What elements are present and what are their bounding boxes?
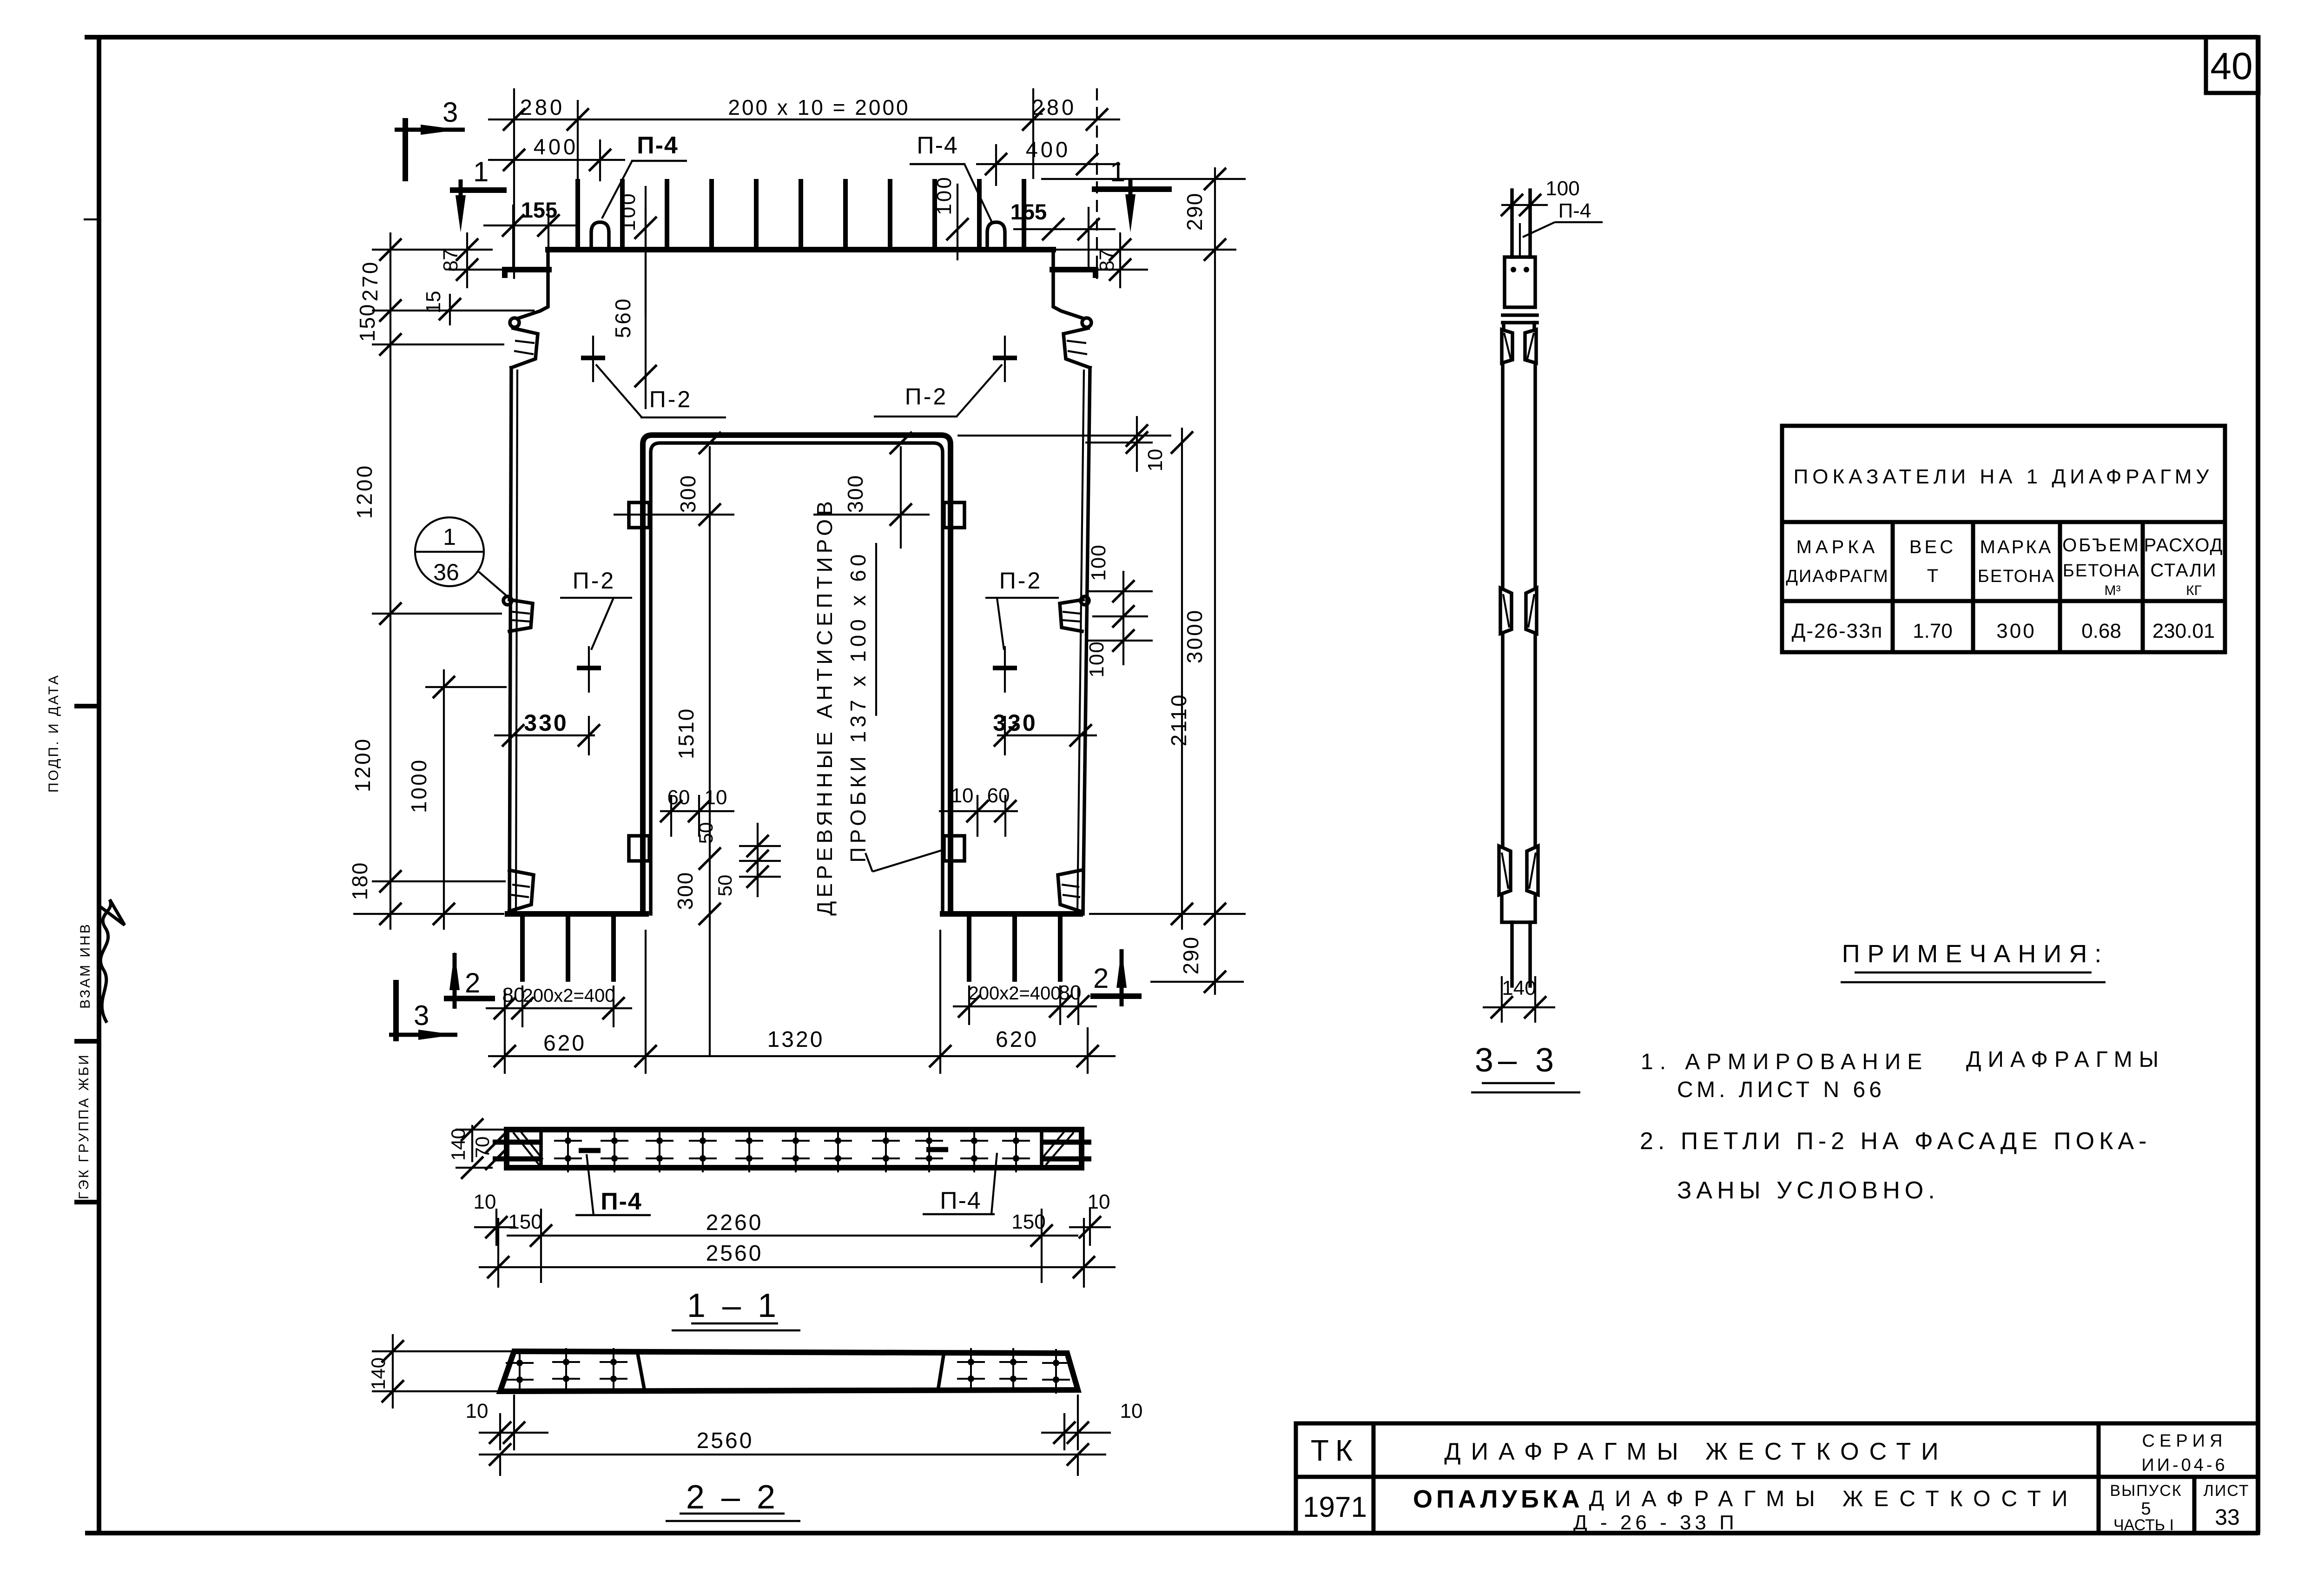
svg-text:10: 10 [705, 786, 727, 809]
signature squiggle on left margin [100, 899, 125, 1023]
loop P-2 upper right (tick) [1004, 336, 1006, 382]
svg-text:1: 1 [473, 156, 489, 187]
svg-text:П-4: П-4 [940, 1187, 982, 1214]
detail circle 1/36 [415, 517, 484, 586]
svg-text:15: 15 [422, 291, 445, 314]
svg-text:2560: 2560 [706, 1241, 763, 1266]
svg-text:560: 560 [611, 297, 635, 338]
svg-text:0.68: 0.68 [2081, 620, 2121, 642]
svg-text:200х2=400: 200х2=400 [522, 985, 615, 1006]
svg-text:ЧАСТЬ I: ЧАСТЬ I [2113, 1516, 2174, 1534]
svg-text:180: 180 [348, 862, 372, 900]
svg-text:10: 10 [1144, 449, 1167, 472]
right chain 2110 [1181, 428, 1183, 930]
top cap block [1505, 257, 1535, 307]
left bottom key [509, 870, 534, 911]
loop section dash right [926, 1147, 948, 1152]
middle keys [1500, 588, 1512, 634]
title block [1296, 1423, 2258, 1534]
svg-text:П-4: П-4 [917, 132, 958, 159]
svg-text:3000: 3000 [1182, 608, 1207, 663]
svg-text:400: 400 [534, 134, 578, 159]
svg-text:П-2: П-2 [905, 384, 948, 410]
loop section dash left [579, 1148, 601, 1153]
bottom rebar spikes right leg [969, 914, 1060, 982]
dim 400 right [976, 163, 1120, 165]
svg-text:140: 140 [447, 1128, 469, 1161]
left top ledge [505, 270, 549, 275]
svg-text:400: 400 [1026, 137, 1070, 162]
loop P-2 upper left (tick) [592, 336, 594, 382]
svg-text:П-4: П-4 [637, 132, 679, 159]
indicators table [1782, 426, 2225, 652]
inner slant right [938, 1352, 944, 1390]
svg-text:П-2: П-2 [999, 568, 1042, 594]
svg-text:1510: 1510 [674, 708, 698, 759]
dim 2560 bottom [479, 1454, 1106, 1455]
svg-text:50: 50 [714, 875, 736, 897]
dim 400 left [488, 159, 625, 161]
svg-text:1200: 1200 [352, 464, 376, 519]
svg-text:3: 3 [414, 1000, 429, 1031]
svg-text:10: 10 [474, 1190, 496, 1213]
svg-text:П-4: П-4 [1558, 199, 1591, 222]
svg-text:ЛИСТ: ЛИСТ [2204, 1482, 2250, 1500]
left middle key [503, 596, 512, 605]
svg-text:100: 100 [1085, 641, 1108, 677]
wooden plug bottom right [944, 836, 964, 861]
svg-text:ДИАФРАГМЫ ЖЕСТКОСТИ: ДИАФРАГМЫ ЖЕСТКОСТИ [1589, 1487, 2079, 1511]
bottom chain 620/1320/620 [488, 1055, 1116, 1057]
svg-text:280: 280 [1032, 95, 1076, 119]
svg-text:300: 300 [676, 475, 700, 513]
bottom cap [1502, 895, 1535, 922]
svg-text:155: 155 [521, 198, 557, 222]
svg-text:ВЫПУСК: ВЫПУСК [2110, 1482, 2182, 1500]
nail cross marks row [554, 1127, 1030, 1172]
left margin stamp text (rotated) [46, 674, 93, 1199]
svg-text:3: 3 [442, 97, 458, 128]
svg-text:5: 5 [2141, 1499, 2151, 1519]
svg-text:330: 330 [993, 710, 1037, 736]
svg-text:200 х 10 = 2000: 200 х 10 = 2000 [728, 95, 910, 119]
svg-text:2110: 2110 [1167, 693, 1191, 747]
svg-text:100: 100 [933, 175, 956, 215]
svg-text:П-4: П-4 [601, 1188, 642, 1215]
section mark 1 (top right) [1092, 186, 1172, 192]
svg-text:2 – 2: 2 – 2 [686, 1479, 779, 1516]
dim 100 rotated right (spike offset) [957, 184, 958, 260]
svg-text:П-2: П-2 [573, 568, 615, 594]
svg-text:ДЕРЕВЯННЫЕ АНТИСЕПТИРОВ: ДЕРЕВЯННЫЕ АНТИСЕПТИРОВ [812, 497, 837, 916]
svg-text:ПРИМЕЧАНИЯ:: ПРИМЕЧАНИЯ: [1842, 940, 2109, 968]
svg-text:100: 100 [1087, 544, 1110, 581]
svg-text:Д - 26 - 33 П: Д - 26 - 33 П [1573, 1511, 1738, 1534]
wooden plug top right [944, 503, 964, 528]
dim 2560 [479, 1266, 1116, 1268]
svg-text:БЕТОНА: БЕТОНА [2063, 561, 2140, 581]
svg-text:33: 33 [2215, 1505, 2239, 1530]
svg-text:ТК: ТК [1311, 1434, 1359, 1467]
svg-text:620: 620 [543, 1031, 586, 1056]
svg-text:200х2=400: 200х2=400 [968, 983, 1061, 1004]
svg-text:1320: 1320 [767, 1027, 825, 1052]
svg-text:1: 1 [443, 524, 456, 550]
svg-text:36: 36 [433, 559, 459, 585]
outer outline [507, 1130, 1082, 1168]
dims 50/50 near lower left plug [746, 835, 769, 857]
svg-text:ДИАФРАГМ: ДИАФРАГМ [1786, 567, 1889, 586]
svg-text:ПОДП. И ДАТА: ПОДП. И ДАТА [46, 674, 61, 793]
svg-text:10: 10 [1120, 1400, 1143, 1422]
svg-text:2. ПЕТЛИ П-2 НА ФАСАДЕ ПОКА-: 2. ПЕТЛИ П-2 НА ФАСАДЕ ПОКА- [1640, 1128, 2151, 1155]
panel left edge lower (double line) [509, 368, 511, 914]
svg-text:РАСХОД: РАСХОД [2144, 535, 2223, 555]
svg-text:10: 10 [951, 784, 974, 807]
loop P-2 lower right (tick) [1004, 646, 1006, 693]
svg-text:150: 150 [1011, 1210, 1045, 1233]
outline trapezoid [500, 1351, 1078, 1391]
svg-text:1 – 1: 1 – 1 [687, 1287, 780, 1324]
svg-text:10: 10 [466, 1400, 489, 1422]
right edge key bump top [1082, 318, 1091, 327]
nail marks left block [506, 1349, 534, 1377]
svg-text:2560: 2560 [697, 1428, 754, 1453]
svg-text:140: 140 [367, 1357, 389, 1390]
svg-text:П-2: П-2 [649, 386, 692, 412]
svg-text:280: 280 [520, 95, 565, 119]
panel left edge upper [519, 250, 548, 318]
page number box "40" [2206, 37, 2258, 93]
left prongs [493, 1140, 541, 1145]
lifting loop P-4 left (elevation) [591, 222, 609, 250]
column body [1502, 323, 1505, 330]
dim 100 rotated left (spike offset) [645, 186, 647, 316]
section mark 3 (bottom left) [393, 980, 399, 1041]
svg-text:270: 270 [358, 260, 382, 302]
inner chain 87 / 15 [466, 232, 468, 288]
extension lines to panel [372, 249, 493, 251]
inner chain 1000 [443, 669, 445, 930]
svg-text:1200: 1200 [350, 737, 375, 792]
svg-text:СТАЛИ: СТАЛИ [2150, 560, 2217, 581]
svg-text:ВЕС: ВЕС [1909, 537, 1956, 557]
svg-text:ПОКАЗАТЕЛИ НА 1 ДИАФРАГМУ: ПОКАЗАТЕЛИ НА 1 ДИАФРАГМУ [1794, 465, 2213, 488]
bottom rebar spikes left leg [522, 914, 614, 982]
svg-text:СЕРИЯ: СЕРИЯ [2142, 1431, 2227, 1451]
panel top edge [548, 247, 1053, 252]
svg-text:1.70: 1.70 [1913, 620, 1953, 642]
svg-text:290: 290 [1179, 936, 1203, 975]
wooden plug bottom left [629, 836, 649, 861]
section mark 2 (bottom right) [1090, 993, 1142, 999]
dim 560 (inside panel, from top) [645, 207, 647, 409]
doorway centerline dims left: 300 / 1510 / 300 [709, 446, 711, 1055]
svg-text:КГ: КГ [2186, 583, 2202, 598]
svg-text:ДИАФРАГМЫ ЖЕСТКОСТИ: ДИАФРАГМЫ ЖЕСТКОСТИ [1444, 1438, 1948, 1465]
svg-text:М³: М³ [2105, 583, 2121, 598]
svg-text:230.01: 230.01 [2152, 620, 2215, 642]
right top ledge [1052, 270, 1096, 275]
svg-text:2260: 2260 [706, 1210, 763, 1235]
nail marks right block [957, 1348, 985, 1376]
bottom keys [1499, 846, 1511, 895]
right outer chain 290/3000/290 [1214, 167, 1216, 995]
svg-text:МАРКА: МАРКА [1980, 537, 2053, 557]
87 right [1119, 232, 1121, 288]
svg-text:100: 100 [617, 192, 640, 231]
dim 155 right [1013, 228, 1116, 230]
svg-text:2: 2 [465, 967, 480, 998]
left end block [539, 1130, 543, 1168]
left main chain line [390, 232, 391, 930]
panel right edge upper [1053, 250, 1082, 318]
right middle key [1081, 596, 1089, 605]
svg-text:140: 140 [1502, 977, 1536, 999]
svg-text:150: 150 [355, 304, 379, 342]
svg-text:150: 150 [508, 1210, 542, 1233]
svg-text:ГЭК ГРУППА ЖБИ: ГЭК ГРУППА ЖБИ [76, 1053, 92, 1199]
svg-text:87: 87 [439, 249, 462, 272]
svg-text:87: 87 [1096, 249, 1118, 272]
svg-text:ОПАЛУБКА: ОПАЛУБКА [1413, 1485, 1584, 1513]
svg-text:100: 100 [1545, 177, 1579, 200]
svg-text:40: 40 [2210, 45, 2252, 87]
doorway opening outer [643, 435, 951, 914]
section mark 1 (top left) [450, 187, 507, 193]
svg-text:ИИ-04-6: ИИ-04-6 [2141, 1455, 2227, 1475]
rebar bottom pair [1510, 922, 1514, 986]
svg-text:1: 1 [1110, 156, 1125, 187]
doorway centerline dims right: 300 [900, 446, 902, 549]
right top key [1063, 328, 1090, 368]
section mark 2 (bottom left) [444, 996, 495, 1001]
dim 2260 [507, 1235, 1078, 1237]
svg-text:290: 290 [1182, 192, 1207, 231]
svg-text:СМ. ЛИСТ N 66: СМ. ЛИСТ N 66 [1677, 1078, 1885, 1102]
svg-text:300: 300 [673, 872, 697, 910]
panel bottom edge left leg [508, 911, 646, 917]
svg-text:Д-26-33п: Д-26-33п [1792, 620, 1883, 642]
notes [1640, 940, 2165, 1204]
inner slant left [637, 1351, 645, 1391]
top rebar spikes [578, 179, 1024, 250]
collar lines [1503, 313, 1537, 317]
right prongs [1042, 1140, 1091, 1145]
right end block [1040, 1130, 1043, 1168]
svg-text:Т: Т [1927, 566, 1938, 586]
svg-text:1. АРМИРОВАНИЕ: 1. АРМИРОВАНИЕ [1641, 1050, 1928, 1074]
svg-text:60: 60 [987, 784, 1010, 807]
panel right edge lower (double line) [1083, 368, 1090, 914]
svg-text:БЕТОНА: БЕТОНА [1978, 567, 2055, 586]
section mark 3 (top left) [403, 118, 408, 181]
right bottom key [1058, 870, 1081, 911]
left edge key bump top [510, 318, 519, 327]
dim line 280/2000/280 [488, 119, 1120, 120]
svg-text:620: 620 [996, 1027, 1038, 1052]
svg-text:ЗАНЫ УСЛОВНО.: ЗАНЫ УСЛОВНО. [1677, 1177, 1940, 1204]
doorway opening inner [651, 443, 943, 914]
left top key [511, 328, 538, 368]
svg-text:ДИАФРАГМЫ: ДИАФРАГМЫ [1966, 1047, 2165, 1072]
top keys (both sides) [1502, 330, 1512, 363]
svg-text:300: 300 [843, 475, 867, 513]
wooden plug top left [629, 503, 649, 528]
svg-text:155: 155 [1010, 199, 1047, 224]
svg-text:3– 3: 3– 3 [1475, 1042, 1558, 1079]
right dim 10 (doorway top) [1136, 416, 1138, 472]
svg-text:ОБЪЕМ: ОБЪЕМ [2062, 535, 2140, 555]
panel bottom edge right leg [943, 911, 1080, 917]
dim 155 left [483, 225, 576, 226]
svg-text:1000: 1000 [407, 758, 431, 813]
svg-text:1971: 1971 [1303, 1491, 1367, 1523]
svg-text:ВЗАМ ИНВ: ВЗАМ ИНВ [78, 922, 93, 1009]
right dim 100/100 (middle key) [1122, 571, 1124, 665]
lifting loop P-4 right (elevation) [987, 222, 1005, 250]
svg-text:2: 2 [1093, 963, 1109, 994]
svg-text:300: 300 [1996, 620, 2036, 642]
loop P-2 lower left (tick) [588, 646, 590, 693]
svg-text:330: 330 [524, 710, 568, 736]
svg-text:ПРОБКИ 137 х 100 х 60: ПРОБКИ 137 х 100 х 60 [846, 550, 870, 862]
svg-text:МАРКА: МАРКА [1796, 537, 1879, 557]
rebar top pair [1510, 190, 1514, 257]
